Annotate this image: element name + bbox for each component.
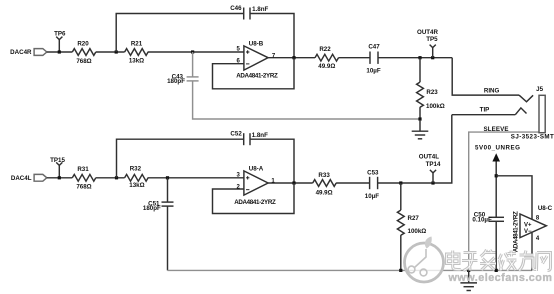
svg-text:TP15: TP15 bbox=[50, 157, 65, 164]
capacitor C46 bbox=[244, 8, 250, 20]
op-amp U8-B bbox=[244, 46, 268, 70]
svg-text:U8-C: U8-C bbox=[538, 205, 553, 212]
svg-text:768Ω: 768Ω bbox=[76, 58, 91, 65]
capacitor C50 bbox=[489, 217, 505, 270]
resistor R33 bbox=[313, 180, 336, 187]
wire U8-B feedback loop bbox=[213, 58, 295, 89]
test point TP6 bbox=[56, 37, 62, 52]
jack J5 sleeve bar bbox=[539, 95, 545, 132]
ground top channel bbox=[412, 120, 429, 139]
wire C53 to TIP corner bbox=[378, 115, 452, 183]
wire SLEEVE bbox=[469, 132, 539, 270]
wire U8-C pin4 to ground bus bbox=[531, 233, 533, 271]
watermark logo circle bbox=[405, 237, 444, 283]
node junction C50 bottom bbox=[495, 269, 498, 272]
svg-text:DAC4R: DAC4R bbox=[10, 49, 32, 56]
watermark chinese characters bbox=[447, 250, 551, 272]
svg-text:10µF: 10µF bbox=[366, 68, 380, 75]
capacitor C52 bbox=[244, 133, 250, 145]
wire C51 bottom / ground bus bbox=[167, 206, 169, 270]
svg-text:0.10µF: 0.10µF bbox=[472, 217, 492, 224]
svg-text:OUT4L: OUT4L bbox=[419, 154, 440, 161]
wire DAC4R to R20 bbox=[47, 51, 73, 53]
svg-text:C47: C47 bbox=[368, 44, 380, 51]
svg-text:49.9Ω: 49.9Ω bbox=[316, 190, 333, 197]
resistor R32 bbox=[125, 174, 148, 181]
wire OUT4R to RING bbox=[452, 58, 519, 95]
svg-text:100kΩ: 100kΩ bbox=[426, 103, 445, 110]
svg-text:C52: C52 bbox=[230, 130, 242, 137]
capacitor C43 bbox=[187, 52, 199, 81]
svg-text:TP6: TP6 bbox=[54, 30, 66, 37]
ground bottom bus bbox=[460, 270, 477, 290]
svg-text:C53: C53 bbox=[367, 170, 379, 177]
node junction ground top channel bbox=[418, 117, 421, 120]
svg-text:R21: R21 bbox=[131, 40, 143, 47]
svg-text:DAC4L: DAC4L bbox=[11, 175, 32, 182]
svg-text:10µF: 10µF bbox=[365, 193, 379, 200]
svg-text:180pF: 180pF bbox=[143, 205, 161, 212]
wire R31 to R32 bbox=[96, 177, 125, 179]
plus sign U8-B bbox=[246, 50, 249, 53]
svg-text:www.elecfans.com: www.elecfans.com bbox=[448, 272, 553, 284]
svg-text:13kΩ: 13kΩ bbox=[129, 182, 144, 189]
op-amp U8-A bbox=[244, 171, 268, 195]
wire R21 to op-amp pin5 bbox=[148, 51, 244, 53]
wire C47 to jack RING corner bbox=[378, 57, 452, 59]
resistor R22 bbox=[315, 54, 338, 61]
jack J5 RING contact bbox=[519, 95, 533, 102]
svg-text:ADA4841-2YRZ: ADA4841-2YRZ bbox=[513, 211, 520, 252]
svg-text:RING: RING bbox=[484, 87, 500, 94]
node junction DAC4L/TP15 bbox=[58, 176, 61, 179]
svg-text:SJ-3523-SMT: SJ-3523-SMT bbox=[511, 134, 554, 141]
wire C52 branch right bbox=[250, 139, 294, 183]
svg-text:ADA4841-2YRZ: ADA4841-2YRZ bbox=[234, 199, 276, 206]
svg-text:TP5: TP5 bbox=[426, 36, 438, 43]
svg-text:U8-B: U8-B bbox=[249, 40, 264, 47]
svg-text:ADA4841-2YRZ: ADA4841-2YRZ bbox=[236, 72, 278, 79]
svg-text:13kΩ: 13kΩ bbox=[129, 58, 144, 65]
wire DAC4L to R31 bbox=[47, 177, 73, 179]
svg-text:C46: C46 bbox=[230, 5, 242, 12]
capacitor C47 bbox=[370, 52, 378, 64]
capacitor C51 bbox=[162, 178, 174, 206]
resistor R31 bbox=[72, 174, 96, 181]
svg-text:J5: J5 bbox=[536, 86, 543, 93]
plus sign U8-A bbox=[246, 176, 249, 179]
wire R33 to C53 bbox=[336, 182, 370, 184]
capacitor C53 bbox=[370, 177, 378, 189]
test point TP14 bbox=[430, 170, 436, 183]
wire ground bus bottom bbox=[168, 269, 533, 271]
resistor R21 bbox=[125, 49, 148, 56]
jack J5 TIP contact bbox=[515, 108, 526, 115]
watermark chinese characters emboss bbox=[447, 250, 551, 272]
svg-text:V−: V− bbox=[524, 229, 532, 235]
svg-text:SLEEVE: SLEEVE bbox=[484, 126, 509, 133]
node junction sleeve/ground bbox=[467, 269, 470, 272]
svg-text:R32: R32 bbox=[130, 166, 142, 173]
svg-text:U8-A: U8-A bbox=[249, 166, 264, 173]
wire C46 branch right bbox=[250, 14, 294, 58]
svg-text:1.8nF: 1.8nF bbox=[252, 132, 268, 139]
svg-text:180pF: 180pF bbox=[167, 78, 185, 85]
node junction C51 tap bbox=[166, 176, 169, 179]
svg-text:R33: R33 bbox=[318, 172, 330, 179]
svg-text:5V00_UNREG: 5V00_UNREG bbox=[475, 145, 520, 152]
svg-text:TP14: TP14 bbox=[426, 161, 441, 168]
resistor R20 bbox=[72, 49, 96, 56]
wire U8-A output bbox=[268, 182, 313, 184]
test point TP5 bbox=[430, 45, 436, 58]
svg-text:100kΩ: 100kΩ bbox=[408, 228, 427, 235]
node junction R27 bottom bbox=[399, 269, 402, 272]
resistor R23 bbox=[417, 58, 424, 120]
wire R32 to op-amp pin3 bbox=[148, 177, 244, 179]
wire 5V00 to U8-C pin8 bbox=[496, 176, 532, 219]
node junction U8-B output/feedback bbox=[292, 56, 295, 59]
node junction C43 tap bbox=[191, 50, 194, 53]
node junction 5V00 bbox=[495, 174, 498, 177]
svg-text:R22: R22 bbox=[319, 46, 331, 53]
node junction TP5 bbox=[431, 56, 434, 59]
wire TIP horizontal bbox=[452, 114, 516, 116]
svg-text:TIP: TIP bbox=[480, 107, 490, 114]
resistor R27 bbox=[397, 183, 404, 270]
svg-text:V+: V+ bbox=[524, 223, 532, 229]
node junction R20/R21/C46 bbox=[115, 50, 118, 53]
connector DAC4L bbox=[34, 174, 47, 181]
wire C43 bottom to ground junction bbox=[193, 81, 420, 119]
svg-text:49.9Ω: 49.9Ω bbox=[318, 63, 335, 70]
wire C52 branch left bbox=[117, 139, 244, 178]
minus sign U8-A bbox=[246, 189, 249, 191]
power symbol 5V00_UNREG bbox=[492, 153, 500, 217]
test point TP15 bbox=[56, 162, 62, 177]
node junction TP14 bbox=[431, 181, 434, 184]
wire U8-A feedback loop bbox=[213, 183, 295, 214]
minus sign U8-B bbox=[246, 63, 249, 65]
op-amp power U8-C bbox=[520, 214, 546, 238]
wire R22 to C47 bbox=[338, 57, 370, 59]
node junction R27 top bbox=[399, 181, 402, 184]
svg-text:R20: R20 bbox=[77, 40, 89, 47]
node junction R23 top bbox=[418, 56, 421, 59]
node junction U8-A output/feedback bbox=[292, 181, 295, 184]
wire U8-B output bbox=[268, 57, 315, 59]
svg-text:1.8nF: 1.8nF bbox=[252, 6, 268, 13]
svg-text:768Ω: 768Ω bbox=[76, 184, 91, 191]
svg-text:R23: R23 bbox=[426, 89, 438, 96]
wire R20 to R21 bbox=[96, 51, 125, 53]
node junction R31/R32/C52 bbox=[115, 176, 118, 179]
connector DAC4R bbox=[34, 49, 47, 56]
node junction DAC4R/TP6 bbox=[58, 50, 61, 53]
wire C46 branch left bbox=[116, 14, 244, 53]
svg-text:R31: R31 bbox=[77, 166, 89, 173]
svg-text:R27: R27 bbox=[408, 215, 420, 222]
svg-text:OUT4R: OUT4R bbox=[417, 29, 439, 36]
